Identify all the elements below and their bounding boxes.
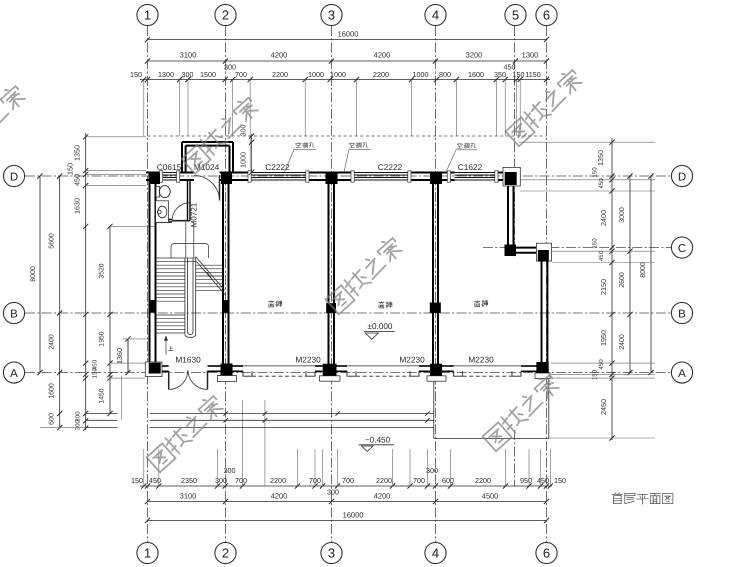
column axis1/B [149,300,156,313]
dimension line 8000 left [30,173,43,375]
watermark 2 [506,67,584,146]
axis bubble C right [671,237,692,258]
svg-text:2150: 2150 [599,279,608,295]
svg-text:2600: 2600 [619,272,626,288]
svg-text:3000: 3000 [619,207,626,223]
svg-text:1950: 1950 [99,331,106,346]
stair landing platform outline [171,222,209,258]
svg-text:1000: 1000 [308,70,324,79]
svg-text:150: 150 [592,369,599,380]
door M2230 dashed opening (bay 2-3) [252,375,306,377]
svg-text:2200: 2200 [373,70,389,79]
watermark 4 [147,393,225,472]
svg-text:4200: 4200 [271,492,288,501]
window C2222 glazing (bay 2-3) [248,171,309,182]
stair lower flight treads [156,315,185,333]
svg-text:1000: 1000 [330,70,346,79]
side steps lines left [86,414,117,428]
svg-text:3100: 3100 [180,492,197,501]
svg-text:700: 700 [413,476,425,485]
column axis5/D [503,167,520,186]
svg-text:A: A [678,368,686,380]
label AC hole 3 [446,143,478,173]
step dimension ticks [224,411,430,422]
toilet WC [156,186,170,198]
svg-text:A: A [10,368,18,380]
dimension line 16000 top [145,30,549,43]
watermark 1 [0,83,27,162]
dimension column 5600/2400/1600/600 left [49,173,63,430]
svg-text:800: 800 [439,70,451,79]
svg-text:150: 150 [92,367,99,378]
exterior wall right (axis 6, C to A) [542,261,548,362]
toilet partition wall [188,180,191,221]
svg-text:700: 700 [235,70,247,79]
svg-text:4200: 4200 [271,51,288,60]
dimension 300/1000 at vestibule [239,125,255,175]
exterior wall D (top) [146,173,517,181]
svg-text:1300: 1300 [522,51,539,60]
axis bubble D left [3,165,24,186]
svg-text:4500: 4500 [482,492,499,501]
svg-text:300: 300 [327,488,339,497]
dimension extension lines top [144,80,520,172]
svg-text:150: 150 [592,167,599,178]
door M1024 entrance leaf and swing [194,175,220,201]
axis bubble 1 bottom [137,542,158,563]
front wall A with shop openings [161,366,537,371]
dimension chain top [130,63,550,83]
axis bubble 2 bottom [215,542,236,563]
svg-text:450: 450 [149,476,161,485]
stair handrail [185,258,196,337]
svg-text:M2230: M2230 [295,355,321,365]
axis bubble A left [3,362,24,383]
svg-text:3: 3 [328,7,335,22]
svg-text:1000: 1000 [239,152,248,168]
svg-text:C1622: C1622 [458,162,483,172]
svg-text:M1630: M1630 [175,355,201,365]
dimension line 16000 bottom [145,511,549,524]
svg-text:300: 300 [182,70,194,79]
svg-text:150: 150 [66,163,75,175]
door M1630 double leaf and swings [169,371,208,390]
column axis2/D [221,173,232,184]
column axis6/C [536,243,551,261]
svg-text:450: 450 [598,250,605,261]
svg-text:600: 600 [49,413,56,425]
axis bubble B left [3,302,24,323]
svg-text:8000: 8000 [640,262,647,278]
svg-text:1500: 1500 [200,70,216,79]
svg-text:M0721: M0721 [189,202,198,227]
stair break line [196,257,226,296]
window C0615 glazing [160,171,180,182]
svg-text:1150: 1150 [525,70,540,79]
svg-text:1350: 1350 [73,145,82,161]
shopfront threshold steps wall A [243,371,521,376]
svg-text:8000: 8000 [30,266,37,282]
axis bubble 6 top [536,4,557,25]
svg-text:2400: 2400 [49,334,56,350]
svg-text:300: 300 [75,419,82,430]
column axis2/A [218,364,237,382]
exterior wall axis 5 (D to C) [508,185,514,245]
svg-text:C2222: C2222 [378,162,403,172]
interior wall axis 4 [433,180,438,365]
label shop 1 [268,301,274,307]
svg-text:150: 150 [554,476,566,485]
rear platform outline (bay 4-6) [434,376,549,438]
door M0721 toilet leaf and swing [172,203,190,221]
svg-text:B: B [678,308,686,320]
axis bubble 6 bottom [536,542,557,563]
svg-text:4200: 4200 [374,51,391,60]
svg-text:±0.000: ±0.000 [368,322,393,331]
svg-text:−0.450: −0.450 [365,436,391,445]
column axis3/D [326,173,338,185]
dimension extension lines right [519,142,655,438]
svg-text:150: 150 [513,70,525,79]
axis grid horizontal line A [25,372,671,374]
column axis4/B [430,303,441,314]
svg-text:2200: 2200 [270,476,286,485]
column axis4/A [427,364,446,381]
svg-text:C0615: C0615 [157,162,182,172]
column axis3/A [320,364,341,381]
dimension 1360 at stair start [115,336,150,375]
svg-text:2200: 2200 [272,70,288,79]
vestibule walls at entrance [182,142,233,173]
column axis4/D [430,173,442,185]
svg-text:450: 450 [598,359,605,370]
stair upper flight treads [156,258,197,301]
dimension chain right [592,138,615,441]
dimension extension lines bottom [144,400,551,486]
svg-text:B: B [10,308,18,320]
canopy dashed outline [148,135,547,137]
svg-text:1300: 1300 [158,70,174,79]
axis grid horizontal line D [25,175,671,177]
stair up arrow [164,336,167,355]
svg-text:2: 2 [222,7,229,22]
svg-text:450: 450 [598,178,605,189]
svg-text:3200: 3200 [466,51,483,60]
axis bubble 4 top [425,4,446,25]
svg-text:2400: 2400 [599,210,608,226]
axis bubble A right [671,362,692,383]
svg-text:M2230: M2230 [468,355,494,365]
front steps lines [150,414,434,428]
dimension line 8000 right [640,173,654,375]
svg-text:1: 1 [144,7,151,22]
axis bubble 2 top [215,4,236,25]
stair label UP [168,346,173,351]
elevation marker +-0.000 [364,322,395,339]
svg-text:1600: 1600 [49,383,56,399]
axis grid horizontal line C [483,247,671,249]
svg-text:D: D [10,171,18,183]
axis bubble 5 top [505,4,526,25]
svg-text:150: 150 [130,70,142,79]
door M2230 dashed opening (bay 4-6) [463,375,512,377]
svg-text:1630: 1630 [73,198,82,214]
label shop 2 [379,302,385,308]
axis grid vertical lines 1-6 [148,26,547,542]
elevation marker -0.450 [359,436,394,452]
svg-text:950: 950 [520,476,532,485]
svg-text:1360: 1360 [115,348,124,364]
axis bubble B right [671,302,692,323]
svg-text:2350: 2350 [181,476,197,485]
svg-text:300: 300 [224,466,236,475]
toilet sink [156,201,169,223]
axis bubble 4 bottom [425,542,446,563]
svg-text:16000: 16000 [338,30,359,39]
column axis1/A [145,362,162,377]
svg-text:2200: 2200 [376,476,392,485]
svg-text:3: 3 [328,545,335,560]
window C1622 glazing (bay 4-5) [447,171,498,182]
svg-text:450: 450 [537,476,549,485]
axis bubble D right [671,165,692,186]
axis grid horizontal line B [25,312,671,314]
door M2230 dashed opening (bay 3-4) [356,375,410,377]
svg-text:600: 600 [442,476,454,485]
svg-text:1450: 1450 [99,388,106,403]
label AC hole 1 [285,143,317,172]
label AC hole 2 [344,143,371,172]
svg-text:150: 150 [592,238,599,249]
svg-text:M2230: M2230 [399,355,425,365]
stair return flight treads [196,265,223,290]
exterior wall C (axis5 to axis6) [516,248,538,253]
svg-text:1600: 1600 [468,70,484,79]
svg-text:6: 6 [543,545,550,560]
svg-text:150: 150 [131,476,143,485]
watermark 3 [326,235,404,314]
toilet south wall [156,220,173,223]
svg-text:1000: 1000 [413,70,429,79]
axis bubble 3 top [321,4,342,25]
svg-text:4200: 4200 [374,492,391,501]
dimension row bays bottom (3100/4200/4200/4500) [145,492,549,505]
svg-text:300: 300 [215,476,227,485]
watermark 5 [483,372,561,451]
dimension column right 3000/2600/2400 [619,173,633,375]
svg-text:6: 6 [543,7,550,22]
svg-text:5600: 5600 [49,233,56,249]
svg-text:1350: 1350 [596,150,605,166]
column axis1/D [149,173,161,184]
svg-text:2: 2 [222,545,229,560]
svg-text:C: C [678,243,686,255]
svg-text:16000: 16000 [343,511,364,520]
column axis3/B [326,303,336,313]
label shop 3 [474,300,480,306]
column axis2/B [224,300,230,313]
svg-text:450: 450 [73,174,82,186]
column axis5/C [505,245,517,257]
svg-text:4: 4 [432,7,439,22]
dimension chain bottom [131,466,566,497]
column axis6/A [535,362,550,379]
svg-text:700: 700 [235,476,247,485]
interior wall axis 2 [223,180,229,365]
svg-text:700: 700 [342,476,354,485]
interior wall axis 3 [329,180,335,365]
svg-text:4: 4 [432,545,439,560]
axis bubble 3 bottom [321,542,342,563]
dimension extension lines left [40,137,155,428]
svg-text:2200: 2200 [475,476,491,485]
dimension chain left upper [66,133,89,431]
svg-text:2400: 2400 [619,334,626,350]
svg-text:3100: 3100 [180,51,197,60]
window C2222 glazing (bay 3-4) [351,171,411,182]
svg-text:2450: 2450 [599,399,608,415]
svg-text:3520: 3520 [99,263,106,278]
svg-text:D: D [678,171,686,183]
svg-text:1950: 1950 [599,330,608,346]
svg-text:5: 5 [512,7,519,22]
drawing title first floor plan [612,493,623,504]
svg-text:1: 1 [144,545,151,560]
dimension chain left lower (3520/1950/1450) [92,224,113,416]
exterior wall left (axis 1) [150,173,156,377]
dimension row bays top (3100/4200/4200/3200/1300) [145,51,549,64]
axis bubble 1 top [137,4,158,25]
